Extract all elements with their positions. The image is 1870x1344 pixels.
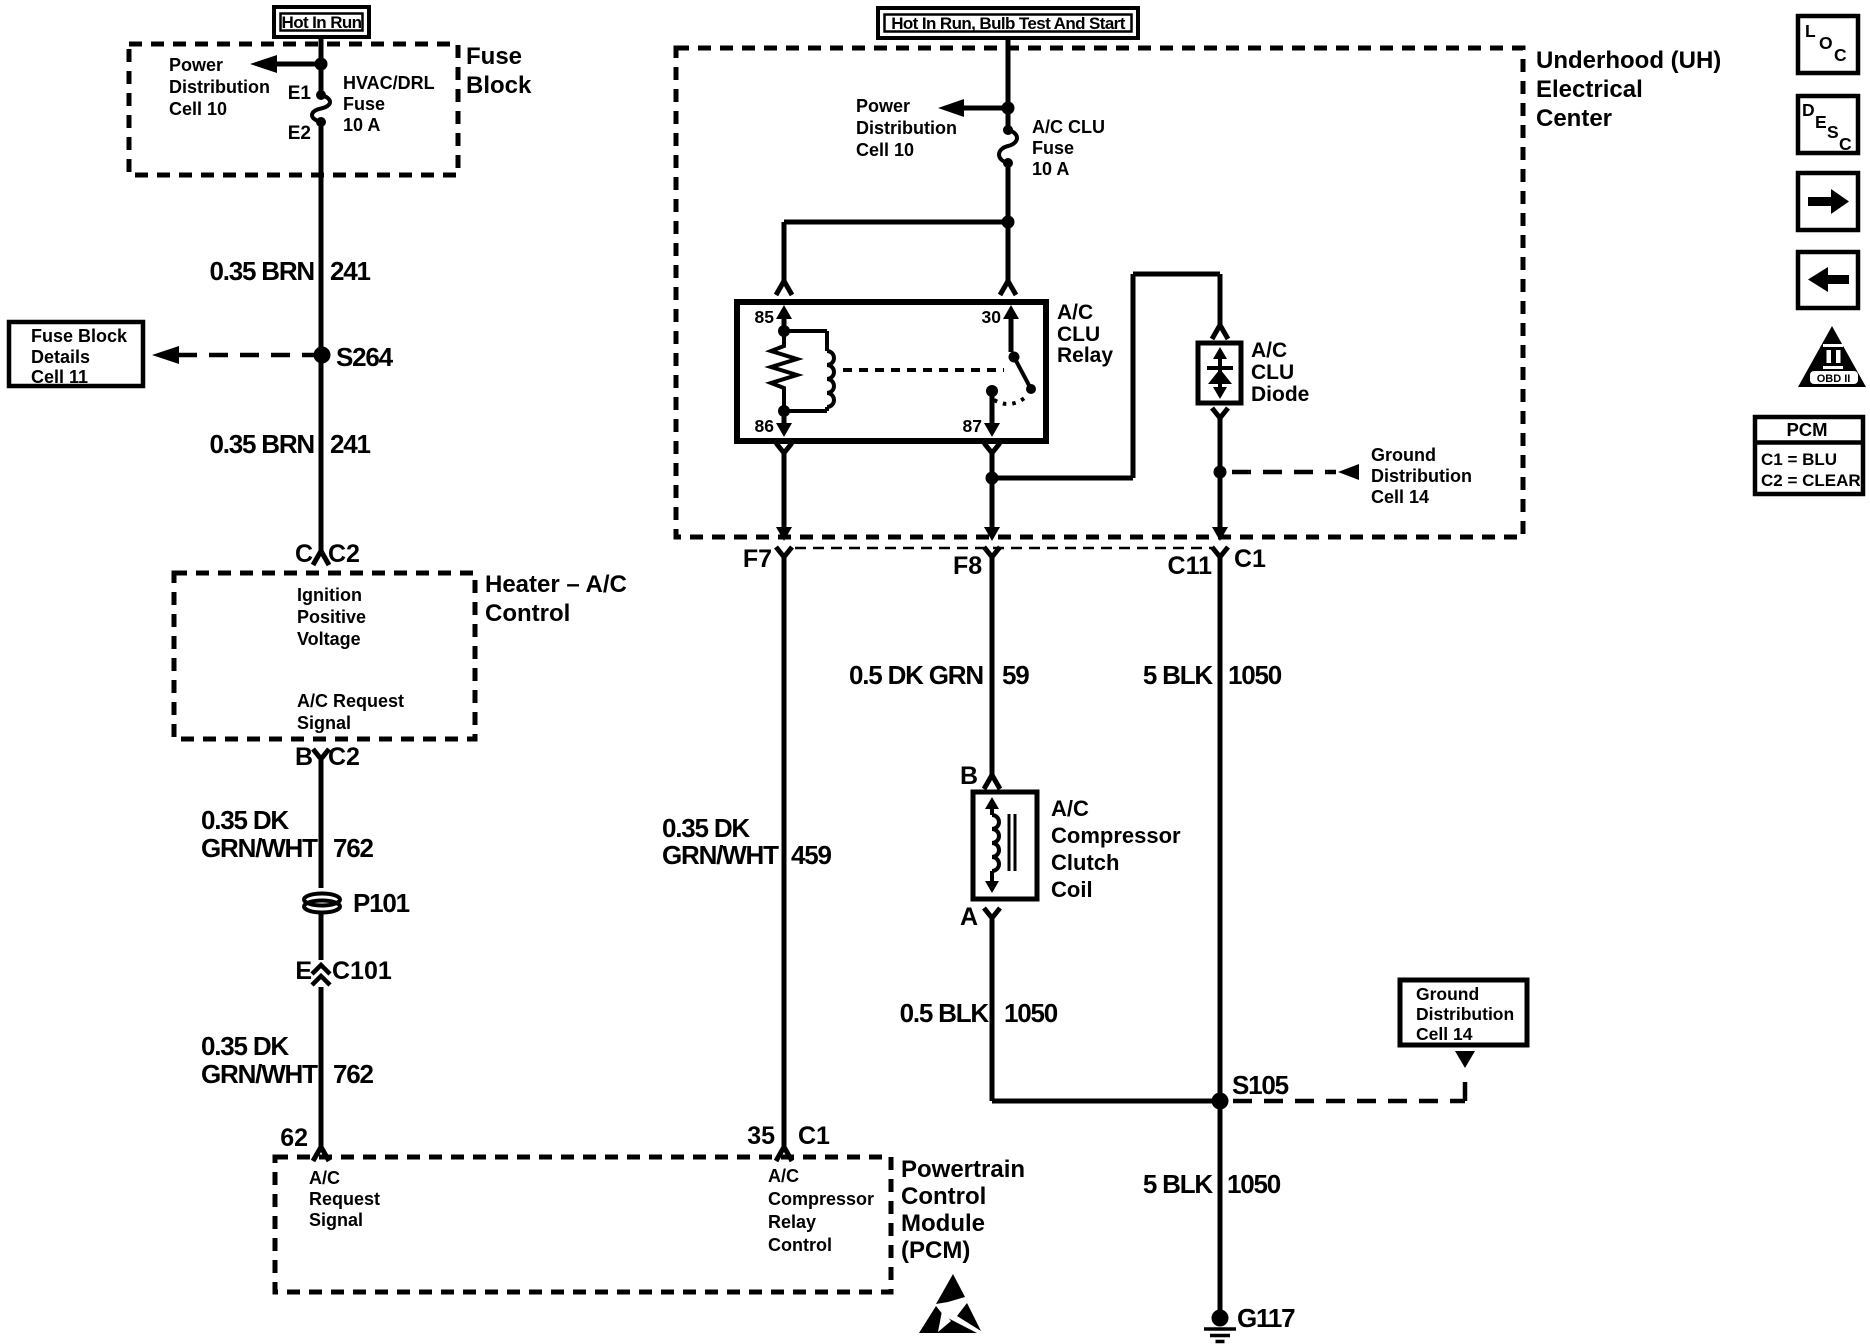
svg-text:Cell 14: Cell 14 bbox=[1371, 487, 1429, 507]
svg-text:Distribution: Distribution bbox=[856, 118, 957, 138]
svg-text:PCM: PCM bbox=[1786, 419, 1827, 440]
svg-text:Details: Details bbox=[31, 347, 90, 367]
svg-text:A/C Request: A/C Request bbox=[297, 691, 404, 711]
svg-text:E2: E2 bbox=[288, 123, 311, 144]
svg-text:E: E bbox=[295, 957, 312, 985]
svg-text:Coil: Coil bbox=[1051, 877, 1093, 902]
svg-text:A/C: A/C bbox=[309, 1168, 340, 1188]
svg-text:A/C: A/C bbox=[1251, 339, 1287, 362]
svg-text:Control: Control bbox=[768, 1235, 832, 1255]
svg-text:S105: S105 bbox=[1232, 1070, 1289, 1100]
svg-text:Voltage: Voltage bbox=[297, 629, 361, 649]
svg-text:Control: Control bbox=[485, 600, 570, 627]
svg-text:1050: 1050 bbox=[1228, 660, 1282, 690]
svg-text:Power: Power bbox=[856, 96, 910, 116]
svg-text:86: 86 bbox=[755, 416, 775, 436]
svg-text:Hot In Run, Bulb Test And Star: Hot In Run, Bulb Test And Start bbox=[891, 14, 1125, 33]
svg-text:85: 85 bbox=[755, 307, 775, 327]
svg-text:Relay: Relay bbox=[1057, 344, 1113, 367]
svg-text:Cell 10: Cell 10 bbox=[169, 99, 227, 119]
svg-text:A/C CLU: A/C CLU bbox=[1032, 117, 1105, 137]
svg-text:G117: G117 bbox=[1237, 1303, 1295, 1333]
svg-text:E: E bbox=[1815, 112, 1827, 132]
svg-text:B: B bbox=[295, 743, 313, 771]
svg-text:C2: C2 bbox=[328, 743, 360, 771]
svg-text:A/C: A/C bbox=[1057, 301, 1093, 324]
svg-text:1050: 1050 bbox=[1227, 1169, 1281, 1199]
svg-text:Compressor: Compressor bbox=[1051, 823, 1181, 848]
svg-text:Hot In Run: Hot In Run bbox=[282, 13, 362, 32]
svg-text:Clutch: Clutch bbox=[1051, 850, 1119, 875]
svg-text:A: A bbox=[960, 903, 978, 931]
svg-text:5 BLK: 5 BLK bbox=[1143, 660, 1214, 690]
svg-text:Ground: Ground bbox=[1416, 984, 1479, 1004]
svg-text:(PCM): (PCM) bbox=[901, 1237, 970, 1264]
svg-text:Fuse: Fuse bbox=[466, 43, 522, 70]
svg-text:10 A: 10 A bbox=[1032, 159, 1069, 179]
svg-text:1050: 1050 bbox=[1004, 998, 1058, 1028]
svg-text:C1: C1 bbox=[1234, 545, 1266, 573]
svg-text:C2 = CLEAR: C2 = CLEAR bbox=[1761, 471, 1861, 490]
svg-text:Cell 10: Cell 10 bbox=[856, 140, 914, 160]
svg-text:P101: P101 bbox=[353, 888, 410, 918]
svg-text:35: 35 bbox=[747, 1122, 775, 1150]
svg-text:Positive: Positive bbox=[297, 607, 366, 627]
svg-text:CLU: CLU bbox=[1251, 361, 1294, 384]
svg-text:C: C bbox=[1834, 45, 1847, 65]
svg-text:5 BLK: 5 BLK bbox=[1143, 1169, 1214, 1199]
svg-text:C1: C1 bbox=[798, 1122, 830, 1150]
svg-text:0.5 BLK: 0.5 BLK bbox=[900, 998, 990, 1028]
svg-text:F8: F8 bbox=[953, 552, 982, 580]
svg-text:Fuse: Fuse bbox=[1032, 138, 1074, 158]
svg-text:62: 62 bbox=[280, 1124, 308, 1152]
svg-text:Ground: Ground bbox=[1371, 445, 1436, 465]
svg-text:O: O bbox=[1819, 33, 1833, 53]
svg-text:CLU: CLU bbox=[1057, 323, 1100, 346]
svg-text:Request: Request bbox=[309, 1189, 380, 1209]
svg-text:0.35 DK: 0.35 DK bbox=[201, 1031, 289, 1061]
svg-text:GRN/WHT: GRN/WHT bbox=[662, 840, 779, 870]
svg-text:GRN/WHT: GRN/WHT bbox=[201, 1059, 318, 1089]
svg-text:L: L bbox=[1805, 21, 1816, 41]
svg-text:10 A: 10 A bbox=[343, 115, 380, 135]
svg-text:C101: C101 bbox=[332, 957, 392, 985]
svg-text:C: C bbox=[1839, 134, 1852, 154]
svg-text:Cell 14: Cell 14 bbox=[1416, 1024, 1473, 1044]
svg-text:59: 59 bbox=[1002, 660, 1029, 690]
svg-text:C11: C11 bbox=[1168, 552, 1213, 580]
svg-text:HVAC/DRL: HVAC/DRL bbox=[343, 73, 435, 93]
svg-text:Fuse: Fuse bbox=[343, 94, 385, 114]
svg-text:Module: Module bbox=[901, 1210, 985, 1237]
svg-text:0.35 BRN: 0.35 BRN bbox=[209, 256, 314, 286]
svg-text:Distribution: Distribution bbox=[1371, 466, 1472, 486]
svg-text:Compressor: Compressor bbox=[768, 1189, 874, 1209]
svg-text:762: 762 bbox=[333, 833, 374, 863]
svg-text:Block: Block bbox=[466, 72, 532, 99]
svg-text:F7: F7 bbox=[743, 545, 772, 573]
svg-text:Underhood (UH): Underhood (UH) bbox=[1536, 47, 1721, 74]
svg-text:241: 241 bbox=[330, 256, 371, 286]
svg-text:Fuse Block: Fuse Block bbox=[31, 326, 128, 346]
svg-text:Ignition: Ignition bbox=[297, 585, 362, 605]
svg-text:Powertrain: Powertrain bbox=[901, 1156, 1025, 1183]
svg-text:OBD II: OBD II bbox=[1817, 373, 1851, 385]
svg-text:0.35 DK: 0.35 DK bbox=[662, 813, 750, 843]
svg-text:S264: S264 bbox=[336, 342, 394, 372]
svg-text:Signal: Signal bbox=[297, 713, 351, 733]
svg-text:B: B bbox=[960, 762, 978, 790]
svg-text:C: C bbox=[295, 540, 313, 568]
svg-text:Distribution: Distribution bbox=[169, 77, 270, 97]
svg-text:C1 = BLU: C1 = BLU bbox=[1761, 450, 1837, 469]
svg-text:0.35 DK: 0.35 DK bbox=[201, 805, 289, 835]
svg-text:Relay: Relay bbox=[768, 1212, 816, 1232]
svg-text:S: S bbox=[1827, 122, 1839, 142]
svg-text:459: 459 bbox=[791, 840, 832, 870]
svg-text:Heater – A/C: Heater – A/C bbox=[485, 571, 627, 598]
svg-text:0.5 DK GRN: 0.5 DK GRN bbox=[849, 660, 983, 690]
svg-text:Distribution: Distribution bbox=[1416, 1004, 1514, 1024]
svg-text:Signal: Signal bbox=[309, 1210, 363, 1230]
svg-text:Center: Center bbox=[1536, 105, 1612, 132]
svg-text:E1: E1 bbox=[288, 83, 312, 104]
svg-text:D: D bbox=[1802, 100, 1815, 120]
svg-text:Control: Control bbox=[901, 1183, 986, 1210]
svg-text:Cell 11: Cell 11 bbox=[31, 367, 88, 387]
svg-text:87: 87 bbox=[963, 416, 982, 436]
svg-text:241: 241 bbox=[330, 429, 371, 459]
svg-text:Power: Power bbox=[169, 55, 223, 75]
svg-text:762: 762 bbox=[333, 1059, 374, 1089]
svg-text:Diode: Diode bbox=[1251, 383, 1309, 406]
svg-text:30: 30 bbox=[982, 307, 1002, 327]
svg-text:0.35 BRN: 0.35 BRN bbox=[209, 429, 314, 459]
svg-text:Electrical: Electrical bbox=[1536, 76, 1643, 103]
svg-text:A/C: A/C bbox=[1051, 796, 1089, 821]
svg-text:C2: C2 bbox=[328, 540, 360, 568]
svg-text:GRN/WHT: GRN/WHT bbox=[201, 833, 318, 863]
svg-text:A/C: A/C bbox=[768, 1166, 799, 1186]
